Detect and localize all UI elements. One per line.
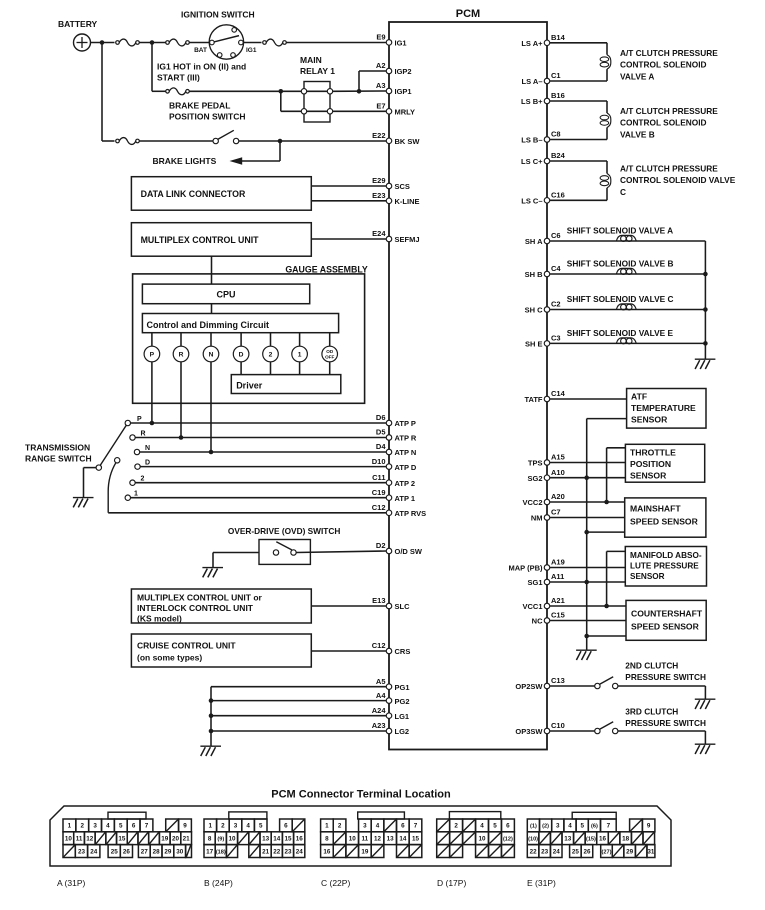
svg-text:24: 24: [553, 848, 561, 855]
svg-text:2: 2: [141, 476, 145, 483]
svg-text:A21: A21: [551, 596, 565, 605]
svg-text:COUNTERSHAFT: COUNTERSHAFT: [631, 609, 703, 619]
svg-text:C13: C13: [551, 676, 565, 685]
wire CPU to dimming circuit: [211, 304, 213, 314]
wire battery to junction: [91, 42, 115, 44]
svg-text:18: 18: [622, 836, 630, 843]
wire F3 to pin E9: [286, 42, 386, 44]
PCM pin A5 PG1: [386, 684, 392, 690]
svg-text:7: 7: [414, 823, 418, 830]
wire MCU to CPU: [211, 256, 213, 284]
node LG1 junction: [209, 713, 214, 718]
svg-text:RANGE SWITCH: RANGE SWITCH: [25, 454, 92, 464]
svg-text:BATTERY: BATTERY: [58, 19, 98, 29]
node LG2 junction: [209, 729, 214, 734]
ground OVD: [202, 567, 223, 569]
svg-text:C14: C14: [551, 389, 566, 398]
svg-text:TPS: TPS: [528, 459, 543, 468]
wire row N to pin D4: [140, 451, 387, 453]
node VCC1 junction: [604, 604, 609, 609]
connector C row 2 cells: [321, 832, 334, 845]
node brake lights junction: [278, 139, 283, 144]
svg-text:NM: NM: [531, 514, 543, 523]
svg-text:C (22P): C (22P): [321, 878, 350, 888]
svg-text:C12: C12: [372, 503, 386, 512]
PCM pin E22 BK SW: [386, 138, 392, 144]
node mainshaft ground junction: [584, 530, 589, 535]
svg-text:MRLY: MRLY: [395, 108, 416, 117]
wire cruise to CRS: [311, 650, 386, 652]
ground 3rd clutch switch: [695, 743, 716, 745]
PCM pin A19 MAP (PB): [544, 565, 550, 571]
svg-text:B16: B16: [551, 91, 565, 100]
ground sensor bus: [576, 649, 597, 651]
wire DLC to K-LINE: [311, 200, 386, 202]
svg-text:SG2: SG2: [527, 474, 542, 483]
svg-text:E13: E13: [372, 596, 385, 605]
svg-text:CPU: CPU: [216, 290, 235, 300]
PCM pin C6 SH A: [544, 238, 550, 244]
connector panel outline: [50, 806, 671, 866]
wire VCC feed MAP: [607, 550, 626, 552]
node IGP2 branch junction: [357, 89, 362, 94]
sensor ground bus: [586, 419, 588, 651]
svg-text:13: 13: [262, 836, 270, 843]
svg-text:A10: A10: [551, 468, 565, 477]
ATF temperature sensor box: [627, 389, 706, 429]
wire relay to IGP1: [333, 90, 387, 92]
svg-text:28: 28: [153, 848, 161, 855]
svg-text:24: 24: [90, 848, 98, 855]
svg-text:TATF: TATF: [524, 395, 542, 404]
svg-text:LUTE PRESSURE: LUTE PRESSURE: [630, 562, 699, 571]
svg-text:20: 20: [172, 836, 180, 843]
wire row 1 to pin C19: [131, 497, 387, 499]
PCM pin A15 TPS: [544, 460, 550, 466]
svg-text:D10: D10: [372, 457, 386, 466]
svg-text:2: 2: [81, 823, 85, 830]
svg-text:2: 2: [269, 352, 273, 359]
PCM pin C11 ATP 2: [386, 480, 392, 486]
PCM pin A10 SG2: [544, 475, 550, 481]
svg-text:5: 5: [493, 823, 497, 830]
wire interlock to SLC: [311, 605, 386, 607]
gauge indicator R: [180, 333, 182, 347]
gauge assembly box: [133, 274, 365, 403]
svg-text:MAIN: MAIN: [300, 55, 322, 65]
svg-text:C4: C4: [551, 264, 561, 273]
node SH C junction: [703, 307, 708, 312]
svg-text:B24: B24: [551, 151, 566, 160]
svg-text:P: P: [150, 352, 155, 359]
node IG-feed junction: [150, 40, 155, 45]
data link connector box: [131, 177, 311, 211]
svg-text:B14: B14: [551, 33, 566, 42]
node SG2 junction: [584, 475, 589, 480]
svg-text:4: 4: [106, 823, 110, 830]
svg-text:PG1: PG1: [395, 683, 410, 692]
svg-text:SENSOR: SENSOR: [630, 572, 665, 581]
wire N indicator drop: [210, 362, 212, 452]
svg-text:(on some types): (on some types): [137, 653, 202, 663]
svg-text:BK SW: BK SW: [395, 137, 421, 146]
svg-text:CONTROL SOLENOID VALVE: CONTROL SOLENOID VALVE: [620, 175, 736, 185]
connector D row 3 cells: [437, 845, 450, 858]
svg-text:C2: C2: [551, 300, 561, 309]
gauge indicator N: [210, 333, 212, 347]
PCM pin A24 LG1: [386, 713, 392, 719]
svg-text:OP3SW: OP3SW: [515, 727, 543, 736]
connector A keying tab: [108, 812, 146, 819]
TRS pivot: [96, 465, 101, 470]
svg-text:A (31P): A (31P): [57, 878, 86, 888]
svg-text:IG1 HOT in ON (II) and: IG1 HOT in ON (II) and: [157, 62, 246, 72]
svg-text:THROTTLE: THROTTLE: [630, 447, 676, 457]
TRS contact 1: [125, 495, 130, 500]
wire VCC1 row: [550, 605, 626, 607]
wire F1 to F2: [139, 42, 166, 44]
wire MCU to SEFMJ: [311, 238, 386, 240]
svg-text:BRAKE PEDAL: BRAKE PEDAL: [169, 101, 230, 111]
svg-text:23: 23: [284, 848, 292, 855]
svg-text:SHIFT SOLENOID VALVE B: SHIFT SOLENOID VALVE B: [567, 259, 674, 269]
svg-text:VALVE A: VALVE A: [620, 71, 654, 81]
PCM pin E9 IG1: [386, 40, 392, 46]
connector D row 2 cells: [437, 832, 450, 845]
wire relay coil branch: [280, 91, 282, 111]
PCM pin C10 OP3SW: [544, 728, 550, 734]
TRS rotor arm: [100, 425, 126, 465]
PCM pin A21 VCC1: [544, 603, 550, 609]
svg-text:SHIFT SOLENOID VALVE A: SHIFT SOLENOID VALVE A: [567, 226, 673, 236]
connector F5 brake feed: [116, 139, 120, 143]
svg-text:6: 6: [506, 823, 510, 830]
wire VCC feed TPS: [607, 447, 626, 449]
svg-text:P: P: [137, 416, 142, 423]
svg-text:26: 26: [583, 848, 591, 855]
svg-text:C10: C10: [551, 721, 565, 730]
wire 1 indicator drop: [299, 362, 301, 375]
wire NC signal: [550, 620, 626, 622]
wire P indicator drop: [151, 362, 153, 423]
svg-text:4: 4: [246, 823, 250, 830]
driver box: [231, 375, 340, 394]
svg-text:30: 30: [176, 848, 184, 855]
svg-text:SENSOR: SENSOR: [630, 470, 667, 480]
svg-text:SHIFT SOLENOID VALVE E: SHIFT SOLENOID VALVE E: [567, 328, 674, 338]
svg-text:3: 3: [363, 823, 367, 830]
svg-text:2: 2: [454, 823, 458, 830]
wire IG-feed drop: [151, 43, 153, 92]
connector D row 1 cells: [437, 819, 450, 832]
wire row D to pin D10: [140, 466, 386, 468]
countershaft speed sensor box: [626, 600, 706, 640]
node P junction: [150, 421, 155, 426]
svg-text:MULTIPLEX CONTROL UNIT: MULTIPLEX CONTROL UNIT: [141, 235, 260, 245]
svg-text:A2: A2: [376, 61, 386, 70]
svg-text:OVER-DRIVE (OVD) SWITCH: OVER-DRIVE (OVD) SWITCH: [228, 526, 340, 536]
svg-text:A20: A20: [551, 492, 565, 501]
svg-text:E24: E24: [372, 229, 386, 238]
TRS contact N: [134, 449, 139, 454]
wire battery drop to brake switch: [101, 43, 103, 142]
svg-text:R: R: [141, 431, 146, 438]
svg-text:1: 1: [209, 823, 213, 830]
svg-text:D4: D4: [376, 442, 386, 451]
PCM pin A23 LG2: [386, 728, 392, 734]
wire O/D indicator drop: [329, 362, 331, 375]
svg-text:E22: E22: [372, 131, 385, 140]
CPU box: [142, 284, 309, 304]
svg-text:MULTIPLEX CONTROL UNIT or: MULTIPLEX CONTROL UNIT or: [137, 593, 263, 603]
connector A row 2 cells: [63, 832, 74, 845]
svg-text:SH A: SH A: [525, 237, 543, 246]
node SH E junction: [703, 341, 708, 346]
svg-text:5: 5: [580, 823, 584, 830]
svg-text:LS C+: LS C+: [521, 157, 543, 166]
node SG1 junction: [584, 580, 589, 585]
svg-text:ATP D: ATP D: [395, 463, 417, 472]
wire VCC2 row: [550, 501, 625, 503]
wire LG2 row: [211, 730, 386, 732]
PCM pin C2 SH C: [544, 307, 550, 313]
PCM pin C15 NC: [544, 618, 550, 624]
brake pedal position switch: [213, 138, 218, 143]
svg-text:C: C: [620, 187, 626, 197]
svg-text:7: 7: [145, 823, 149, 830]
svg-text:(15): (15): [586, 837, 596, 843]
svg-text:C15: C15: [551, 611, 565, 620]
PCM pin D4 ATP N: [386, 449, 392, 455]
svg-text:10: 10: [349, 836, 357, 843]
wire pivot to ground: [84, 467, 97, 469]
PCM pin C16 LS C–: [544, 198, 550, 204]
gauge indicator 2: [270, 333, 272, 347]
svg-text:A5: A5: [376, 677, 386, 686]
wire SG1 row: [550, 581, 625, 583]
PCM pin B16 LS B+: [544, 98, 550, 104]
svg-text:4: 4: [480, 823, 484, 830]
svg-text:1: 1: [325, 823, 329, 830]
svg-text:A11: A11: [551, 572, 564, 581]
svg-text:C11: C11: [372, 473, 385, 482]
gauge indicator P: [151, 333, 153, 347]
wire MAP signal: [550, 567, 625, 569]
svg-text:POSITION: POSITION: [630, 459, 671, 469]
wire to brake lights: [279, 141, 281, 161]
wire OVD to pin D2: [296, 551, 386, 553]
wire F5 to brake switch: [139, 140, 213, 142]
wire SG2 row: [550, 477, 625, 479]
connector B row 2 cells: [204, 832, 215, 845]
svg-text:IGNITION SWITCH: IGNITION SWITCH: [181, 10, 255, 20]
svg-text:C3: C3: [551, 334, 561, 343]
TRS contact R: [130, 435, 135, 440]
wire OVD to ground: [213, 552, 259, 554]
wire shift solenoid common: [704, 241, 706, 359]
svg-text:22: 22: [273, 848, 281, 855]
connector F1 on battery feed: [116, 41, 120, 45]
svg-text:4: 4: [376, 823, 380, 830]
svg-text:23: 23: [541, 848, 549, 855]
svg-text:A/T CLUTCH PRESSURE: A/T CLUTCH PRESSURE: [620, 164, 718, 174]
svg-text:19: 19: [361, 848, 369, 855]
svg-text:16: 16: [323, 848, 331, 855]
svg-text:SENSOR: SENSOR: [631, 415, 668, 425]
connector C keying tab: [358, 812, 405, 819]
svg-text:E (31P): E (31P): [527, 878, 556, 888]
svg-text:BRAKE LIGHTS: BRAKE LIGHTS: [153, 156, 217, 166]
svg-text:SPEED SENSOR: SPEED SENSOR: [631, 622, 700, 632]
wire ATF sensor to sensor-ground bus: [587, 418, 627, 420]
wire branch to IGP2: [358, 71, 360, 91]
svg-text:2: 2: [221, 823, 225, 830]
connector E row 3 cells: [527, 845, 539, 858]
battery: [74, 34, 91, 51]
svg-text:10: 10: [228, 836, 236, 843]
svg-text:MAINSHAFT: MAINSHAFT: [630, 504, 681, 514]
PCM pin C12 CRS: [386, 648, 392, 654]
svg-text:R: R: [179, 352, 184, 359]
svg-text:11: 11: [76, 836, 83, 843]
PCM pin E7 MRLY: [386, 109, 392, 115]
TRS contact 2: [130, 480, 135, 485]
ground 2nd clutch switch: [695, 698, 716, 700]
connector C row 1 cells: [321, 819, 334, 832]
svg-text:CONTROL SOLENOID: CONTROL SOLENOID: [620, 118, 707, 128]
svg-text:D6: D6: [376, 413, 386, 422]
cruise control unit box: [131, 634, 311, 667]
svg-text:(6): (6): [591, 824, 598, 830]
svg-text:8: 8: [325, 836, 329, 843]
PCM pin C1 LS A–: [544, 78, 550, 84]
PCM pin C4 SH B: [544, 271, 550, 277]
svg-text:27: 27: [141, 848, 149, 855]
svg-text:ATP R: ATP R: [395, 434, 417, 443]
PCM control module box: [389, 22, 547, 750]
multiplex control unit box: [131, 223, 311, 257]
svg-text:2: 2: [338, 823, 342, 830]
ignition switch: [209, 25, 243, 59]
connector C row 3 cells: [321, 845, 334, 858]
svg-text:OD: OD: [326, 349, 334, 354]
svg-text:10: 10: [65, 836, 73, 843]
svg-text:A3: A3: [376, 81, 386, 90]
svg-text:CONTROL SOLENOID: CONTROL SOLENOID: [620, 60, 707, 70]
svg-text:(9): (9): [217, 837, 224, 843]
ground shift solenoids: [695, 358, 716, 360]
manifold absolute pressure sensor box: [625, 547, 706, 587]
svg-text:SLC: SLC: [395, 602, 411, 611]
PCM pin D6 ATP P: [386, 420, 392, 426]
over-drive OVD switch: [259, 540, 310, 565]
wire row P to pin D6: [131, 422, 387, 424]
svg-text:C7: C7: [551, 508, 561, 517]
TRS contact D: [135, 464, 140, 469]
svg-text:DATA LINK CONNECTOR: DATA LINK CONNECTOR: [141, 189, 246, 199]
svg-text:14: 14: [399, 836, 407, 843]
wire TPS signal: [550, 462, 625, 464]
3rd clutch pressure switch: [550, 730, 595, 732]
svg-text:9: 9: [647, 823, 651, 830]
svg-text:LS B–: LS B–: [521, 136, 542, 145]
svg-text:IG1: IG1: [395, 39, 407, 48]
svg-text:1: 1: [298, 352, 302, 359]
svg-text:19: 19: [161, 836, 169, 843]
svg-text:24: 24: [296, 848, 304, 855]
svg-text:D (17P): D (17P): [437, 878, 466, 888]
PCM pin C7 NM: [544, 515, 550, 521]
node relay input junction: [279, 89, 284, 94]
svg-text:PCM Connector Terminal Locatio: PCM Connector Terminal Location: [271, 789, 451, 801]
svg-text:ATP 1: ATP 1: [395, 494, 416, 503]
svg-text:3RD CLUTCH: 3RD CLUTCH: [625, 707, 678, 717]
node VCC2 junction: [604, 500, 609, 505]
svg-text:15: 15: [412, 836, 420, 843]
svg-text:LG2: LG2: [395, 727, 410, 736]
svg-text:C12: C12: [372, 641, 386, 650]
svg-text:PRESSURE SWITCH: PRESSURE SWITCH: [625, 718, 706, 728]
wire IG1 to F3: [244, 42, 262, 44]
svg-text:(27): (27): [602, 849, 612, 855]
PCM pin C14 TATF: [544, 396, 550, 402]
PCM pin D10 ATP D: [386, 464, 392, 470]
wire brake switch to pin E22: [239, 140, 386, 142]
svg-text:N: N: [209, 352, 214, 359]
svg-text:E7: E7: [376, 102, 385, 111]
svg-text:LS A+: LS A+: [521, 39, 543, 48]
PCM pin A3 IGP1: [386, 88, 392, 94]
PCM pin E23 K-LINE: [386, 198, 392, 204]
svg-text:START (III): START (III): [157, 73, 200, 83]
svg-text:E9: E9: [376, 33, 385, 42]
svg-text:A19: A19: [551, 558, 565, 567]
svg-text:B (24P): B (24P): [204, 878, 233, 888]
svg-text:E23: E23: [372, 191, 385, 200]
svg-text:A24: A24: [372, 706, 387, 715]
svg-text:15: 15: [284, 836, 292, 843]
svg-text:LS A–: LS A–: [522, 77, 543, 86]
PCM pin C13 OP2SW: [544, 683, 550, 689]
svg-text:D: D: [145, 460, 150, 467]
svg-text:ATF: ATF: [631, 392, 647, 402]
svg-text:(18): (18): [216, 849, 226, 855]
wire TATF to ATF sensor: [550, 398, 627, 400]
PCM pin C12 ATP RVS: [386, 510, 392, 516]
wire 2 indicator drop: [270, 362, 272, 375]
svg-text:6: 6: [284, 823, 288, 830]
svg-text:GAUGE ASSEMBLY: GAUGE ASSEMBLY: [285, 265, 368, 275]
wire NM signal: [550, 517, 625, 519]
svg-text:C16: C16: [551, 191, 565, 200]
svg-text:3: 3: [234, 823, 238, 830]
svg-text:VALVE B: VALVE B: [620, 129, 655, 139]
svg-text:A15: A15: [551, 453, 565, 462]
multiplex interlock unit box: [131, 589, 311, 623]
PCM pin B14 LS A+: [544, 40, 550, 46]
node countershaft ground junction: [584, 634, 589, 639]
svg-text:13: 13: [564, 836, 572, 843]
svg-text:LS B+: LS B+: [521, 97, 543, 106]
svg-text:A4: A4: [376, 691, 386, 700]
svg-text:7: 7: [607, 823, 611, 830]
svg-text:IGP1: IGP1: [395, 87, 412, 96]
PCM pin E13 SLC: [386, 603, 392, 609]
wire row RVS to pin C12: [108, 512, 386, 514]
svg-text:10: 10: [479, 836, 487, 843]
svg-text:Driver: Driver: [236, 381, 263, 391]
gauge indicator 1: [299, 333, 301, 347]
